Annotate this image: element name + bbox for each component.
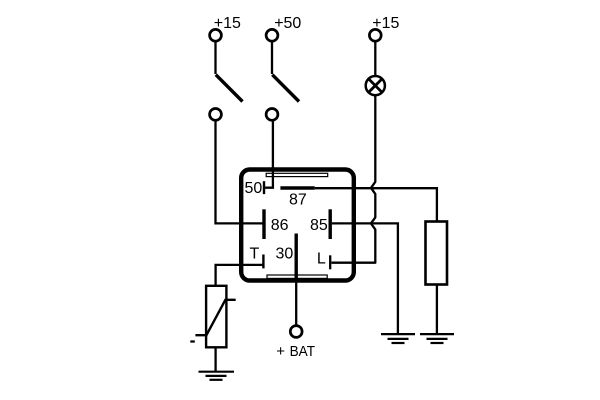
switch S1 lower contact circle — [210, 109, 222, 121]
indicator lamp H1 — [366, 76, 385, 95]
load resistor R2 body — [426, 222, 448, 285]
relay inner top bar — [266, 173, 328, 176]
terminal +15 (ignition) label — [214, 15, 241, 32]
pin 50 tick — [263, 181, 265, 194]
wire from +50 to switch S2 — [271, 42, 273, 74]
switch S2 blade — [272, 75, 299, 102]
wire pin 87 to resistor R2 — [315, 188, 437, 221]
wire from +15 to lamp H1 — [374, 42, 376, 76]
pin 30 bar — [295, 234, 298, 282]
wire sensor R1 to ground — [214, 347, 216, 371]
wire pin 30 to +BAT — [295, 281, 297, 326]
terminal +BAT contact circle — [290, 326, 302, 338]
wire from S2 to pin 50 — [265, 121, 273, 187]
svg-text:T: T — [250, 246, 260, 263]
terminal +15 contact circle — [210, 29, 222, 41]
svg-text:+50: +50 — [274, 15, 301, 32]
terminal +15 lamp contact circle — [369, 29, 381, 41]
switch S1 blade — [216, 75, 243, 102]
pin 86 label — [271, 217, 289, 234]
terminal +15 (lamp feed) label — [372, 15, 399, 32]
temperature sensor R1 body — [206, 286, 226, 348]
pin L label — [317, 251, 326, 268]
pin 87 bar — [280, 186, 314, 189]
wire from S1 to pin 86 — [216, 121, 263, 223]
pin 50 label — [245, 180, 263, 197]
svg-text:50: 50 — [245, 180, 263, 197]
ground symbol right (resistor R2) — [420, 334, 454, 343]
terminal +50 contact circle — [266, 29, 278, 41]
svg-text:85: 85 — [310, 217, 328, 234]
pin 30 label — [276, 246, 294, 263]
wire pin 85 to ground — [332, 223, 398, 333]
ground symbol left — [199, 372, 235, 380]
pin L tick — [329, 255, 331, 269]
relay inner bottom bar — [267, 275, 327, 278]
pin T label — [250, 246, 260, 263]
pin 85 bar — [329, 209, 332, 239]
temperature sensor R1 characteristic line — [195, 300, 235, 335]
wire pin T to sensor R1 — [216, 265, 265, 286]
ground symbol middle (pin 85) — [381, 334, 415, 343]
wire resistor R2 to ground — [436, 285, 438, 334]
temperature sensor R1 minus sign — [190, 340, 195, 342]
svg-text:87: 87 — [289, 192, 307, 209]
pin 87 label — [289, 192, 307, 209]
svg-text:30: 30 — [276, 246, 294, 263]
terminal +50 (starter) label — [274, 15, 301, 32]
wire from +15 to switch S1 — [214, 42, 216, 74]
pin T tick — [262, 255, 264, 269]
svg-text:86: 86 — [271, 217, 289, 234]
pin 85 label — [310, 217, 328, 234]
svg-text:+: + — [276, 343, 285, 360]
svg-text:BAT: BAT — [290, 343, 315, 360]
svg-text:L: L — [317, 251, 326, 268]
pin 86 bar — [262, 209, 265, 239]
wire from lamp H1 down to pin L with crossover jogs — [332, 95, 376, 263]
relay box K1 — [241, 170, 354, 281]
terminal +BAT label — [276, 343, 315, 360]
switch S2 lower contact circle — [266, 109, 278, 121]
